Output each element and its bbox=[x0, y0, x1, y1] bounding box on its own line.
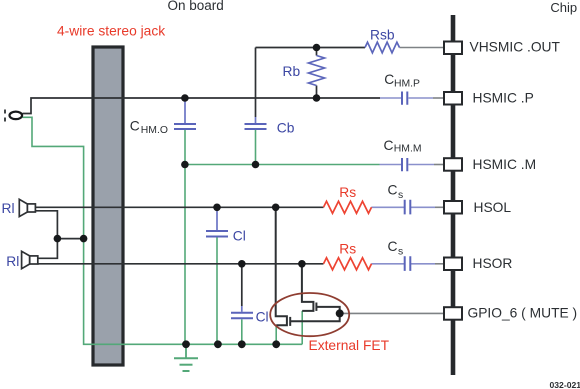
svg-text:s: s bbox=[398, 247, 403, 258]
svg-text:4-wire stereo jack: 4-wire stereo jack bbox=[57, 24, 165, 39]
svg-text:C: C bbox=[384, 138, 394, 153]
svg-text:Rb: Rb bbox=[283, 64, 301, 79]
svg-text:Rs: Rs bbox=[339, 241, 356, 256]
svg-text:Rs: Rs bbox=[339, 185, 356, 200]
svg-text:On board: On board bbox=[168, 0, 224, 13]
svg-text:External FET: External FET bbox=[309, 338, 390, 353]
svg-text:Cl: Cl bbox=[256, 310, 269, 325]
svg-text:HSOR: HSOR bbox=[473, 256, 513, 271]
svg-text:Rl: Rl bbox=[6, 254, 19, 269]
svg-text:Chip: Chip bbox=[550, 0, 577, 15]
svg-text:HM.O: HM.O bbox=[141, 125, 168, 136]
svg-text:s: s bbox=[398, 190, 403, 201]
svg-text:HM.P: HM.P bbox=[394, 78, 420, 89]
svg-text:C: C bbox=[384, 72, 394, 87]
svg-text:Rl: Rl bbox=[2, 201, 15, 216]
svg-text:C: C bbox=[388, 239, 398, 254]
svg-text:GPIO_6 ( MUTE ): GPIO_6 ( MUTE ) bbox=[468, 306, 578, 321]
svg-text:VHSMIC .OUT: VHSMIC .OUT bbox=[470, 40, 561, 55]
svg-text:HSMIC .P: HSMIC .P bbox=[473, 91, 534, 106]
svg-text:032-021: 032-021 bbox=[550, 380, 580, 389]
svg-text:Rsb: Rsb bbox=[370, 27, 395, 42]
svg-text:C: C bbox=[388, 183, 398, 198]
svg-text:Cb: Cb bbox=[277, 121, 295, 136]
svg-text:C: C bbox=[130, 118, 140, 133]
svg-text:HSOL: HSOL bbox=[474, 200, 512, 215]
svg-text:Cl: Cl bbox=[233, 229, 246, 244]
svg-text:HM.M: HM.M bbox=[394, 144, 422, 155]
svg-text:HSMIC .M: HSMIC .M bbox=[473, 157, 537, 172]
